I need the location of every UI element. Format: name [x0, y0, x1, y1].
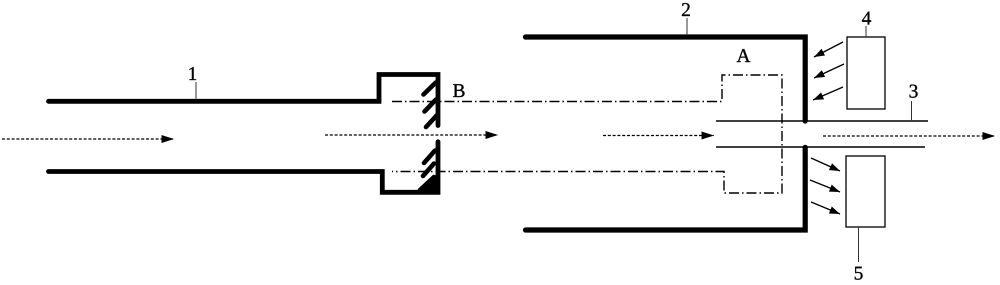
label 4 — [862, 12, 871, 25]
label 2 — [682, 3, 690, 16]
leader line for label 1 — [195, 82, 197, 99]
output beam arrow (dashed) — [823, 135, 995, 137]
input beam arrow (far left, dashed) — [2, 138, 174, 140]
leader line for label 4 — [865, 26, 867, 37]
waveguide tube 1 top wall with end flange step — [49, 75, 439, 126]
cavity 2 bottom and right-lower wall — [526, 147, 806, 230]
leader line for label 5 — [858, 227, 860, 262]
pump arrow from box 4 upper — [814, 42, 843, 57]
emission arrow to box 5 middle — [810, 180, 840, 192]
grating B lower hatches — [420, 151, 435, 191]
emission arrow to box 5 lower — [811, 202, 840, 214]
grating B upper hatches — [424, 83, 438, 128]
label 5 — [855, 267, 863, 280]
leader line for label 2 — [686, 18, 688, 35]
cavity 2 top and right-upper wall — [526, 37, 806, 121]
output tube 3 top line — [716, 120, 928, 122]
label B — [453, 84, 464, 97]
output tube 3 bottom line — [716, 146, 925, 148]
label 3 — [910, 85, 918, 98]
box 4 — [847, 37, 885, 109]
pump arrow from box 4 middle — [814, 64, 844, 78]
beam arrow inside tube 1 (dashed) — [325, 134, 498, 136]
waveguide tube 1 bottom wall with end flange step — [49, 142, 439, 193]
box 5 — [846, 156, 885, 227]
pump arrow from box 4 lower — [813, 87, 843, 100]
emission arrow to box 5 upper — [811, 158, 840, 171]
beam arrow inside cavity 2 (dashed) — [603, 135, 714, 137]
grating B lower corner wedge — [419, 173, 439, 193]
label A — [737, 49, 751, 62]
beam path centerline (dash-dot contour through A) — [392, 75, 782, 193]
leader line for label 3 — [911, 101, 913, 120]
label 1 — [189, 67, 196, 80]
